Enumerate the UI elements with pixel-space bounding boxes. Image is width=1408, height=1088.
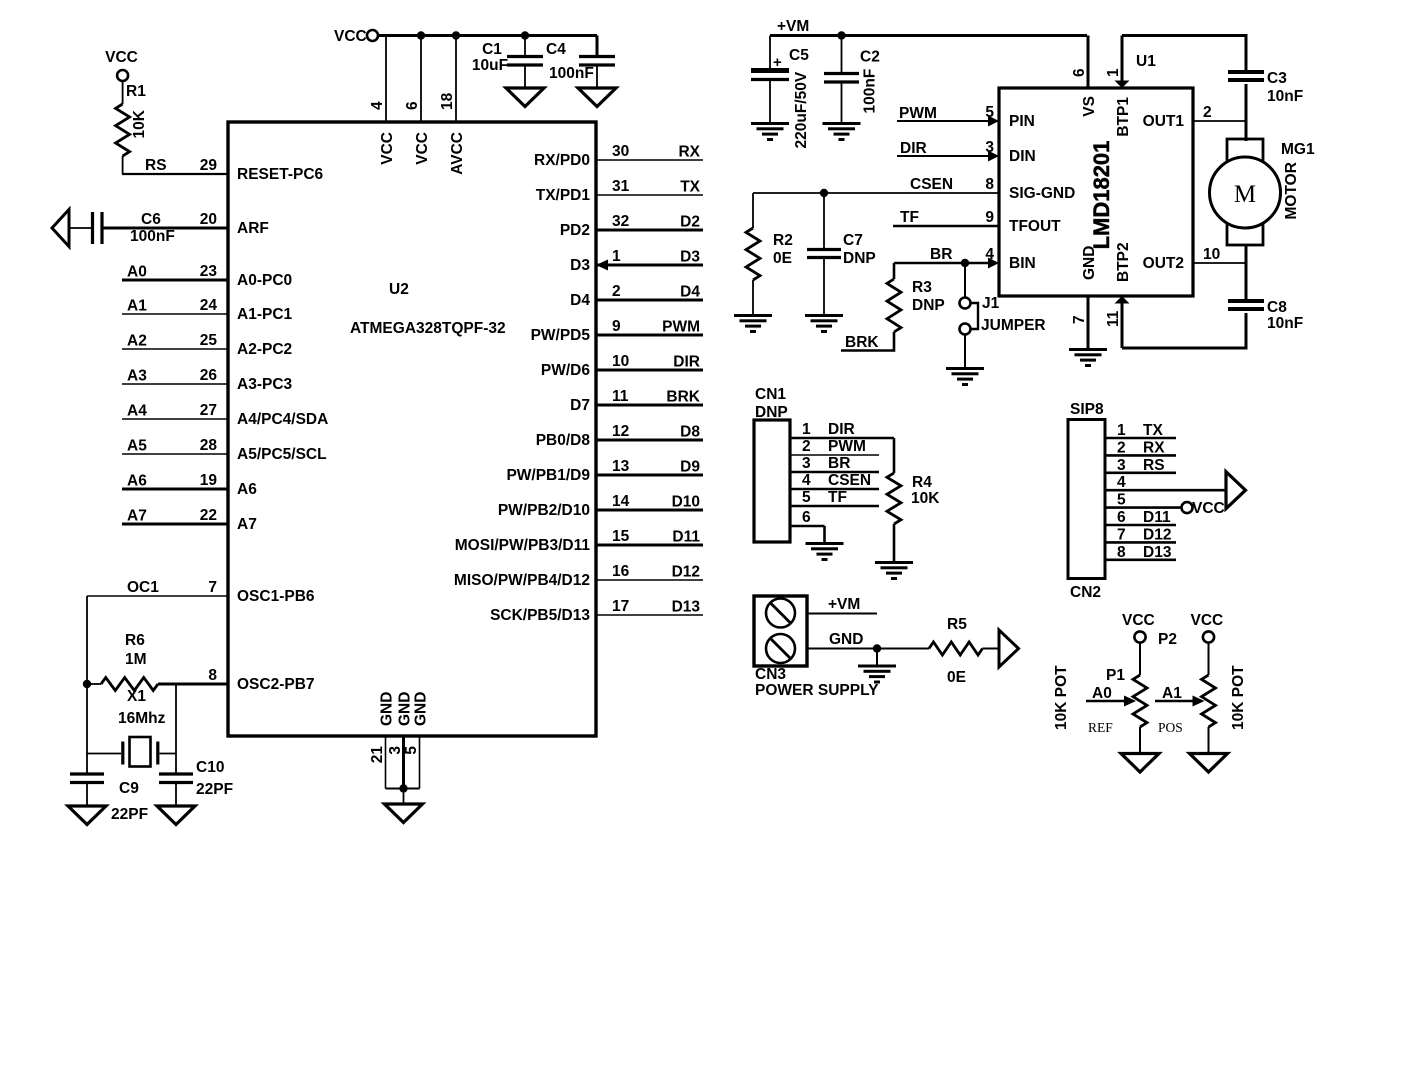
resistor R2 0E bbox=[746, 193, 793, 314]
svg-text:5: 5 bbox=[403, 746, 420, 755]
motor MG1 bbox=[1210, 139, 1315, 245]
svg-text:OC1: OC1 bbox=[127, 579, 159, 596]
junction bbox=[521, 31, 529, 39]
svg-text:100nF: 100nF bbox=[862, 69, 879, 114]
svg-text:5: 5 bbox=[1117, 492, 1126, 509]
svg-text:3: 3 bbox=[802, 455, 811, 472]
svg-text:CN3: CN3 bbox=[755, 666, 786, 683]
svg-text:A7: A7 bbox=[127, 508, 147, 525]
svg-text:+VM: +VM bbox=[828, 596, 860, 613]
svg-text:10: 10 bbox=[1203, 246, 1220, 263]
capacitor C5 220uF/50V electrolytic bbox=[751, 36, 810, 149]
svg-text:SIG-GND: SIG-GND bbox=[1009, 185, 1075, 202]
svg-text:GND: GND bbox=[413, 692, 430, 726]
net GND wire bbox=[807, 631, 929, 649]
svg-text:TFOUT: TFOUT bbox=[1009, 218, 1061, 235]
wire bbox=[86, 596, 88, 774]
svg-text:VCC: VCC bbox=[1192, 500, 1225, 517]
U2 pin 13 PW/PB1/D9 net D9 bbox=[506, 458, 703, 484]
ground bbox=[1190, 754, 1228, 773]
svg-text:A2: A2 bbox=[127, 333, 147, 350]
svg-text:R3: R3 bbox=[912, 279, 932, 296]
svg-text:OSC2-PB7: OSC2-PB7 bbox=[237, 676, 315, 693]
svg-text:RS: RS bbox=[1143, 457, 1165, 474]
power flag VCC (top rail) bbox=[334, 28, 597, 45]
U2 pin 28 A5/PC5/SCL bbox=[122, 437, 327, 463]
svg-text:GND: GND bbox=[379, 692, 396, 726]
U1 pin 11 BTP2 bbox=[1105, 296, 1130, 348]
svg-text:8: 8 bbox=[985, 176, 994, 193]
svg-text:21: 21 bbox=[369, 746, 386, 764]
svg-text:18: 18 bbox=[439, 92, 456, 110]
svg-text:19: 19 bbox=[200, 472, 218, 489]
svg-text:LMD18201: LMD18201 bbox=[1089, 141, 1114, 250]
svg-text:9: 9 bbox=[612, 318, 621, 335]
svg-text:20: 20 bbox=[200, 211, 217, 228]
svg-text:25: 25 bbox=[200, 332, 218, 349]
svg-text:C5: C5 bbox=[789, 47, 809, 64]
svg-text:PIN: PIN bbox=[1009, 113, 1035, 130]
ground bbox=[805, 314, 843, 317]
resistor R6 1M bbox=[87, 632, 228, 691]
junction bbox=[820, 189, 828, 197]
svg-text:X1: X1 bbox=[127, 688, 146, 705]
svg-text:A4: A4 bbox=[127, 403, 147, 420]
svg-text:C10: C10 bbox=[196, 759, 224, 776]
svg-text:3: 3 bbox=[387, 746, 404, 755]
svg-text:P2: P2 bbox=[1158, 631, 1177, 648]
svg-text:A0-PC0: A0-PC0 bbox=[237, 272, 292, 289]
svg-text:6: 6 bbox=[404, 101, 421, 110]
svg-text:24: 24 bbox=[200, 297, 218, 314]
svg-text:C3: C3 bbox=[1267, 70, 1287, 87]
U2 pin 11 D7 net BRK bbox=[570, 388, 703, 414]
svg-text:2: 2 bbox=[612, 283, 621, 300]
svg-text:D9: D9 bbox=[680, 459, 700, 476]
svg-text:DNP: DNP bbox=[912, 297, 945, 314]
svg-text:PW/PD5: PW/PD5 bbox=[531, 327, 591, 344]
U2 pin 29 RESET-PC6 bbox=[200, 157, 324, 183]
svg-text:100nF: 100nF bbox=[130, 228, 175, 245]
svg-text:5: 5 bbox=[802, 489, 811, 506]
svg-text:3: 3 bbox=[1117, 457, 1126, 474]
svg-text:13: 13 bbox=[612, 458, 630, 475]
node RS bbox=[122, 157, 228, 174]
U2 bottom pins 21,3,5 GND bbox=[369, 692, 430, 789]
svg-text:GND: GND bbox=[829, 631, 863, 648]
CN2 pin 5 bbox=[1105, 492, 1182, 509]
jumper J1 bbox=[960, 263, 1046, 367]
ground bbox=[875, 561, 913, 564]
CN2 pin 8 net D13 bbox=[1105, 544, 1176, 561]
U2 pin 12 PB0/D8 net D8 bbox=[536, 423, 703, 449]
svg-text:100nF: 100nF bbox=[549, 65, 594, 82]
U2 pin 15 MOSI/PW/PB3/D11 net D11 bbox=[455, 528, 703, 554]
svg-text:DIR: DIR bbox=[828, 421, 855, 438]
svg-text:27: 27 bbox=[200, 402, 217, 419]
svg-text:4: 4 bbox=[369, 101, 386, 110]
capacitor C9 22PF bbox=[70, 774, 148, 823]
ground bbox=[806, 542, 844, 545]
svg-text:U2: U2 bbox=[389, 281, 409, 298]
svg-text:DIR: DIR bbox=[673, 354, 700, 371]
wire bbox=[1245, 245, 1248, 301]
ground bbox=[734, 314, 772, 317]
svg-text:3: 3 bbox=[985, 139, 994, 156]
net DIR wire to U1 DIN pin 3 bbox=[897, 139, 999, 162]
svg-text:D10: D10 bbox=[672, 494, 700, 511]
wire bbox=[823, 526, 826, 542]
svg-text:CN2: CN2 bbox=[1070, 584, 1101, 601]
off-page connector (AREF) bbox=[52, 210, 69, 247]
U2 pin 24 A1-PC1 bbox=[122, 297, 293, 323]
svg-text:PWM: PWM bbox=[662, 319, 700, 336]
svg-text:DNP: DNP bbox=[843, 250, 876, 267]
svg-text:D8: D8 bbox=[680, 424, 700, 441]
svg-text:C2: C2 bbox=[860, 49, 880, 66]
U2 pin 9 PW/PD5 net PWM bbox=[531, 318, 703, 344]
svg-text:11: 11 bbox=[1105, 310, 1122, 327]
svg-text:29: 29 bbox=[200, 157, 218, 174]
U2 pin 17 SCK/PB5/D13 net D13 bbox=[490, 598, 703, 624]
svg-text:6: 6 bbox=[802, 509, 811, 526]
svg-text:10uF: 10uF bbox=[472, 57, 508, 74]
svg-text:10nF: 10nF bbox=[1267, 315, 1303, 332]
svg-text:D12: D12 bbox=[672, 564, 700, 581]
svg-text:A0: A0 bbox=[127, 264, 147, 281]
resistor R3 DNP bbox=[841, 263, 945, 351]
capacitor C6 100nF (AREF) bbox=[69, 211, 228, 245]
U2 pin 1 D3 net D3 bbox=[570, 248, 703, 274]
U1 pin 10 OUT2 bbox=[1193, 246, 1246, 263]
svg-text:J1: J1 bbox=[982, 295, 1000, 312]
svg-text:12: 12 bbox=[612, 423, 629, 440]
potentiometer P2 10K POT bbox=[1155, 631, 1247, 754]
svg-text:D11: D11 bbox=[672, 529, 700, 546]
svg-text:PB0/D8: PB0/D8 bbox=[536, 432, 591, 449]
svg-text:A1: A1 bbox=[127, 298, 147, 315]
svg-text:14: 14 bbox=[612, 493, 630, 510]
svg-text:A3: A3 bbox=[127, 368, 147, 385]
svg-text:PWM: PWM bbox=[899, 105, 937, 122]
svg-text:AVCC: AVCC bbox=[449, 132, 466, 175]
svg-text:17: 17 bbox=[612, 598, 629, 615]
svg-text:8: 8 bbox=[1117, 544, 1126, 561]
svg-text:1: 1 bbox=[802, 421, 811, 438]
U2 pin 2 D4 net D4 bbox=[570, 283, 703, 309]
U1 pin 7 GND bbox=[1071, 296, 1088, 348]
ground bbox=[946, 367, 984, 370]
connector CN3 POWER SUPPLY body bbox=[754, 596, 879, 699]
svg-text:10K: 10K bbox=[131, 109, 148, 138]
svg-text:D12: D12 bbox=[1143, 526, 1171, 543]
svg-text:DIN: DIN bbox=[1009, 148, 1036, 165]
svg-text:TX: TX bbox=[680, 179, 700, 196]
svg-text:VCC: VCC bbox=[334, 28, 367, 45]
power flag VCC (P2) bbox=[1191, 612, 1224, 643]
svg-text:PW/D6: PW/D6 bbox=[541, 362, 590, 379]
svg-text:220uF/50V: 220uF/50V bbox=[793, 71, 810, 148]
ground bbox=[385, 804, 423, 823]
CN2 pin 7 net D12 bbox=[1105, 526, 1176, 543]
U1 pin 2 OUT1 bbox=[1193, 104, 1246, 121]
junction bbox=[873, 644, 881, 652]
svg-text:VCC: VCC bbox=[1122, 612, 1155, 629]
U2 pin 32 PD2 net D2 bbox=[560, 213, 703, 239]
ground bbox=[68, 806, 106, 825]
svg-text:2: 2 bbox=[802, 438, 811, 455]
svg-text:8: 8 bbox=[208, 667, 217, 684]
svg-text:OSC1-PB6: OSC1-PB6 bbox=[237, 588, 315, 605]
svg-text:JUMPER: JUMPER bbox=[981, 317, 1046, 334]
svg-text:D13: D13 bbox=[672, 599, 701, 616]
MCU U2 ATMEGA328TQPF-32 body bbox=[228, 122, 596, 736]
svg-text:DNP: DNP bbox=[755, 404, 788, 421]
svg-text:A0: A0 bbox=[1092, 685, 1112, 702]
svg-text:VCC: VCC bbox=[1191, 612, 1224, 629]
junction bbox=[83, 680, 91, 688]
CN2 pin 1 net TX bbox=[1105, 422, 1176, 439]
capacitor C3 10nF bbox=[1228, 70, 1303, 141]
U2 pin 16 MISO/PW/PB4/D12 net D12 bbox=[454, 563, 703, 589]
svg-text:GND: GND bbox=[397, 692, 414, 726]
svg-text:9: 9 bbox=[985, 209, 994, 226]
net TF wire to U1 TFOUT pin 9 bbox=[893, 209, 999, 226]
ground bbox=[858, 665, 896, 668]
ground bbox=[1069, 348, 1107, 351]
svg-text:CSEN: CSEN bbox=[828, 472, 871, 489]
CN1 pin 6 bbox=[790, 509, 825, 526]
ground bbox=[823, 122, 861, 125]
svg-text:C1: C1 bbox=[482, 41, 502, 58]
svg-text:PW/PB1/D9: PW/PB1/D9 bbox=[506, 467, 590, 484]
U2 pin 14 PW/PB2/D10 net D10 bbox=[498, 493, 703, 519]
U2 pin 23 A0-PC0 bbox=[122, 263, 292, 289]
svg-text:POS: POS bbox=[1158, 720, 1183, 735]
svg-text:SIP8: SIP8 bbox=[1070, 401, 1104, 418]
svg-text:C9: C9 bbox=[119, 780, 139, 797]
svg-text:TX: TX bbox=[1143, 422, 1163, 439]
net PWM wire to U1 PIN pin 5 bbox=[897, 104, 999, 127]
svg-text:D4: D4 bbox=[570, 292, 590, 309]
svg-text:RESET-PC6: RESET-PC6 bbox=[237, 166, 324, 183]
svg-text:16: 16 bbox=[612, 563, 630, 580]
svg-text:22: 22 bbox=[200, 507, 217, 524]
svg-text:GND: GND bbox=[1081, 246, 1098, 280]
wire bbox=[1122, 347, 1248, 350]
svg-text:BR: BR bbox=[828, 455, 850, 472]
U2 pin 26 A3-PC3 bbox=[122, 367, 293, 393]
CN1 pin 4 net CSEN bbox=[790, 472, 879, 489]
svg-text:4: 4 bbox=[1117, 474, 1126, 491]
ground bbox=[578, 88, 616, 107]
svg-text:BIN: BIN bbox=[1009, 255, 1036, 272]
svg-text:A7: A7 bbox=[237, 516, 257, 533]
U2 pin 8 OSC2-PB7 bbox=[208, 667, 314, 693]
U2 pin 19 A6 bbox=[122, 472, 257, 498]
resistor R1 10K bbox=[116, 81, 148, 174]
U2 pin 20 ARF bbox=[200, 211, 269, 237]
svg-text:15: 15 bbox=[612, 528, 630, 545]
capacitor C8 10nF bbox=[1228, 299, 1303, 348]
svg-text:30: 30 bbox=[612, 143, 629, 160]
capacitor C1 10uF bbox=[472, 36, 543, 89]
svg-text:VCC: VCC bbox=[105, 49, 138, 66]
svg-text:5: 5 bbox=[985, 104, 994, 121]
net OC1 wire bbox=[87, 579, 228, 596]
connector CN2 SIP8 body bbox=[1068, 401, 1105, 601]
wire bbox=[403, 789, 405, 805]
resistor R5 0E bbox=[929, 616, 999, 686]
svg-text:REF: REF bbox=[1088, 720, 1113, 735]
svg-text:OUT2: OUT2 bbox=[1143, 255, 1184, 272]
U1 pin 1 BTP1 bbox=[1105, 36, 1130, 89]
svg-text:CN1: CN1 bbox=[755, 386, 786, 403]
svg-text:1M: 1M bbox=[125, 651, 147, 668]
ground bbox=[157, 806, 195, 825]
svg-text:2: 2 bbox=[1117, 439, 1126, 456]
U2 top power pins 4,6,18 VCC/AVCC bbox=[369, 36, 466, 175]
U2 pin 22 A7 bbox=[122, 507, 257, 533]
U2 pin 25 A2-PC2 bbox=[122, 332, 292, 358]
off-page connector (GND out) bbox=[999, 630, 1019, 667]
svg-text:A3-PC3: A3-PC3 bbox=[237, 376, 293, 393]
svg-text:R1: R1 bbox=[126, 83, 146, 100]
ground bbox=[506, 88, 544, 107]
svg-text:7: 7 bbox=[208, 579, 217, 596]
svg-text:D3: D3 bbox=[570, 257, 590, 274]
svg-text:BTP1: BTP1 bbox=[1115, 97, 1132, 137]
svg-text:10: 10 bbox=[612, 353, 629, 370]
svg-text:R2: R2 bbox=[773, 232, 793, 249]
svg-text:D3: D3 bbox=[680, 249, 700, 266]
svg-text:PW/PB2/D10: PW/PB2/D10 bbox=[498, 502, 590, 519]
svg-text:A1-PC1: A1-PC1 bbox=[237, 306, 293, 323]
svg-text:C6: C6 bbox=[141, 211, 161, 228]
svg-text:A6: A6 bbox=[127, 473, 147, 490]
svg-text:P1: P1 bbox=[1106, 667, 1125, 684]
svg-text:10K POT: 10K POT bbox=[1230, 665, 1247, 730]
svg-text:U1: U1 bbox=[1136, 53, 1156, 70]
svg-text:A5: A5 bbox=[127, 438, 147, 455]
svg-text:23: 23 bbox=[200, 263, 218, 280]
power flag VCC (P1) bbox=[1122, 612, 1155, 643]
svg-text:6: 6 bbox=[1117, 509, 1126, 526]
svg-text:4: 4 bbox=[985, 246, 994, 263]
svg-text:D7: D7 bbox=[570, 397, 590, 414]
svg-text:POWER SUPPLY: POWER SUPPLY bbox=[755, 682, 879, 699]
svg-text:CSEN: CSEN bbox=[910, 176, 953, 193]
svg-text:TF: TF bbox=[828, 489, 847, 506]
CN2 pin 6 net D11 bbox=[1105, 509, 1176, 526]
svg-text:PWM: PWM bbox=[828, 438, 866, 455]
capacitor C2 100nF bbox=[824, 36, 880, 123]
svg-text:10nF: 10nF bbox=[1267, 88, 1303, 105]
CN1 pin 1 net DIR bbox=[790, 421, 894, 438]
CN1 pin 2 net PWM bbox=[790, 438, 879, 455]
svg-text:R4: R4 bbox=[912, 474, 932, 491]
net CSEN wire to U1 SIG-GND pin 8 bbox=[753, 176, 999, 193]
svg-text:10K POT: 10K POT bbox=[1053, 665, 1070, 730]
svg-text:A5/PC5/SCL: A5/PC5/SCL bbox=[237, 446, 327, 463]
power rail +VM bbox=[770, 18, 1087, 36]
svg-text:1: 1 bbox=[1117, 422, 1126, 439]
svg-text:2: 2 bbox=[1203, 104, 1212, 121]
wire bbox=[1122, 36, 1246, 71]
svg-text:MOSI/PW/PB3/D11: MOSI/PW/PB3/D11 bbox=[455, 537, 591, 554]
svg-text:11: 11 bbox=[612, 388, 629, 405]
svg-text:4: 4 bbox=[802, 472, 811, 489]
junction bbox=[399, 784, 407, 792]
svg-text:BR: BR bbox=[930, 246, 952, 263]
junction bbox=[837, 31, 845, 39]
svg-text:A6: A6 bbox=[237, 481, 257, 498]
potentiometer P1 10K POT bbox=[1053, 643, 1147, 754]
svg-text:26: 26 bbox=[200, 367, 218, 384]
svg-text:7: 7 bbox=[1117, 526, 1126, 543]
svg-text:A2-PC2: A2-PC2 bbox=[237, 341, 292, 358]
svg-text:BTP2: BTP2 bbox=[1115, 242, 1132, 282]
capacitor C4 100nF bbox=[546, 36, 615, 89]
svg-text:R6: R6 bbox=[125, 632, 145, 649]
svg-text:MISO/PW/PB4/D12: MISO/PW/PB4/D12 bbox=[454, 572, 590, 589]
ground bbox=[751, 122, 789, 125]
svg-text:7: 7 bbox=[1071, 315, 1088, 324]
H-bridge U1 LMD18201 body bbox=[999, 53, 1193, 296]
svg-text:D2: D2 bbox=[680, 214, 700, 231]
svg-text:16Mhz: 16Mhz bbox=[118, 710, 166, 727]
ground bbox=[1121, 754, 1159, 773]
svg-text:TF: TF bbox=[900, 209, 919, 226]
CN2 pin 3 net RS bbox=[1105, 457, 1176, 474]
U2 pin 27 A4/PC4/SDA bbox=[122, 402, 328, 428]
svg-text:MOTOR: MOTOR bbox=[1283, 162, 1300, 219]
junction bbox=[961, 259, 969, 267]
svg-text:SCK/PB5/D13: SCK/PB5/D13 bbox=[490, 607, 590, 624]
svg-text:28: 28 bbox=[200, 437, 218, 454]
svg-text:A1: A1 bbox=[1162, 685, 1182, 702]
svg-text:MG1: MG1 bbox=[1281, 141, 1315, 158]
svg-text:31: 31 bbox=[612, 178, 630, 195]
U2 pin 30 RX/PD0 net RX bbox=[534, 143, 703, 169]
svg-text:D4: D4 bbox=[680, 284, 700, 301]
svg-text:M: M bbox=[1234, 181, 1256, 208]
U1 pin 6 VS bbox=[1071, 36, 1088, 89]
resistor R4 10K bbox=[887, 438, 940, 561]
svg-text:D11: D11 bbox=[1143, 509, 1171, 526]
CN2 pin 4 bbox=[1105, 474, 1226, 491]
svg-text:22PF: 22PF bbox=[196, 781, 233, 798]
svg-text:BRK: BRK bbox=[666, 389, 700, 406]
U2 pin 10 PW/D6 net DIR bbox=[541, 353, 703, 379]
svg-text:10K: 10K bbox=[911, 490, 940, 507]
svg-text:1: 1 bbox=[612, 248, 621, 265]
capacitor C7 DNP bbox=[807, 193, 876, 314]
svg-text:0E: 0E bbox=[773, 250, 792, 267]
svg-text:C7: C7 bbox=[843, 232, 863, 249]
svg-text:ARF: ARF bbox=[237, 220, 269, 237]
svg-text:R5: R5 bbox=[947, 616, 967, 633]
svg-text:C8: C8 bbox=[1267, 299, 1287, 316]
CN1 pin 3 net BR bbox=[790, 455, 879, 472]
svg-text:PD2: PD2 bbox=[560, 222, 590, 239]
svg-text:RX/PD0: RX/PD0 bbox=[534, 152, 590, 169]
wire bbox=[175, 684, 177, 774]
svg-text:OUT1: OUT1 bbox=[1143, 113, 1185, 130]
off-page connector (CN2 pin 4) bbox=[1226, 472, 1246, 509]
power flag VCC (CN2 pin 5) bbox=[1182, 500, 1225, 517]
crystal X1 16Mhz bbox=[87, 688, 176, 767]
